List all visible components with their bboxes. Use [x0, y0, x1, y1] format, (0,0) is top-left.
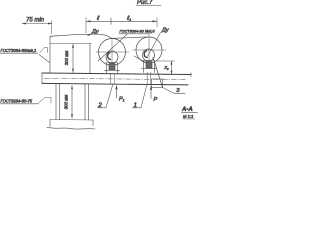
label Ду (right) with leader into right pulley — [148, 28, 170, 57]
left pulley roller (inner circle) — [106, 51, 118, 63]
svg-text:75 min: 75 min — [26, 18, 45, 24]
beam left end cap — [41, 73, 43, 84]
anchor arm (horizontal tie) — [50, 43, 91, 45]
section label А-А — [181, 107, 198, 119]
left pulley centerlines — [96, 51, 129, 53]
rope from left anchor to left pulley — [50, 34, 111, 38]
right trolley bracket — [142, 61, 157, 85]
beam centerline (dash-dot) — [44, 78, 187, 79]
left roller hub detail — [108, 53, 111, 60]
force P1 arrow — [115, 85, 124, 103]
label ГОСТ3064-80 №5,5 (rope label, top middle) — [98, 29, 155, 61]
svg-text:ГОСТ3264-80-75: ГОСТ3264-80-75 — [1, 99, 33, 104]
tension box on rope end — [152, 79, 163, 88]
base block right edge — [92, 120, 94, 126]
label ГОСТ3064-80№9,1 (upper left) — [1, 48, 50, 63]
callout 1 — [133, 85, 148, 110]
post below beam: right flange — [85, 84, 89, 120]
dimension L / L1 (top middle) — [86, 15, 157, 33]
right pulley roller (inner circle) — [143, 49, 155, 61]
svg-text:Ду: Ду — [161, 28, 170, 34]
svg-text:300 мм: 300 мм — [63, 95, 68, 110]
dimension 75 min (top left) — [22, 18, 52, 35]
base block top — [50, 119, 93, 122]
svg-text:300 мм: 300 мм — [64, 51, 69, 66]
post below beam: left flange — [56, 84, 60, 120]
left trolley bracket — [105, 63, 120, 84]
leader to rope on left pulley — [98, 34, 127, 61]
beam (monorail) top chord — [42, 73, 191, 75]
right pulley P: outer circle — [136, 37, 162, 63]
leader hook to post — [39, 55, 50, 63]
rope between pulley tops — [113, 37, 147, 38]
beam bottom chord — [42, 83, 188, 85]
beam right end tick — [190, 73, 192, 77]
base block left edge — [49, 120, 51, 127]
callout 3 — [174, 88, 185, 94]
title Рис.7 (clipped at top) — [136, 0, 161, 6]
svg-text:ГОСТ3064-80№9,1: ГОСТ3064-80№9,1 — [1, 48, 37, 53]
svg-text:Рис.7: Рис.7 — [137, 0, 153, 6]
force P arrow — [150, 86, 158, 103]
svg-text:ℓ1: ℓ1 — [126, 15, 131, 22]
rope leaving right pulley down to tension box — [153, 58, 163, 88]
svg-text:М 1:1: М 1:1 — [183, 114, 193, 119]
right roller hub detail — [144, 51, 147, 58]
label Ду (left) — [87, 29, 100, 36]
right pulley centerlines — [133, 49, 167, 51]
dimension x (right, roller to beam) — [157, 61, 175, 74]
callout 3 leader — [163, 88, 175, 94]
dimension 300мм (lower, beam to base) — [63, 86, 73, 119]
base break line — [47, 127, 95, 129]
callout 2 — [97, 85, 113, 110]
left pulley P1: outer circle — [99, 39, 126, 66]
left anchor post — [49, 36, 51, 73]
arm strut — [89, 44, 91, 74]
label ГОСТ3264-80-75 (lower left) — [1, 98, 52, 104]
svg-text:ГОСТ3064-80 №5,5: ГОСТ3064-80 №5,5 — [120, 29, 156, 34]
dimension 300мм (upper, arm to beam) — [64, 44, 74, 73]
short rope mark at right pulley lower-left — [134, 56, 146, 63]
svg-text:Р: Р — [154, 97, 158, 103]
